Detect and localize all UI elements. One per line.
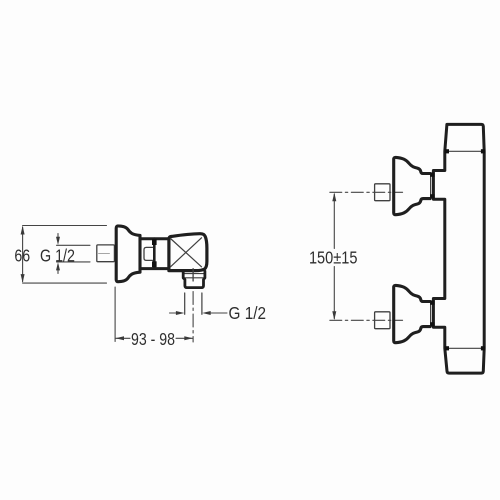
extension line 93-98 (escutcheon face) <box>114 287 116 342</box>
outlet centerline dash-dot <box>192 292 194 343</box>
bottom ring junction square upper <box>430 300 435 304</box>
junction square bottom <box>152 261 157 267</box>
dimension line 66 vertical <box>22 227 24 282</box>
extension line bottom (66 dim) <box>23 282 107 284</box>
top handle bell <box>394 157 430 214</box>
valve body (side view) <box>169 234 207 271</box>
cap junction square top-left <box>445 149 449 153</box>
X diagonal 1 <box>171 239 202 267</box>
inlet centerline dash <box>99 252 110 254</box>
outlet center tick <box>192 269 194 281</box>
X diagonal 2 <box>171 238 202 267</box>
G1/2 arrow down (above) <box>57 234 59 240</box>
bottom handle bell <box>394 285 430 342</box>
G1/2 extension line lower <box>57 261 91 263</box>
outlet nut <box>183 271 205 287</box>
dim line 150 lower segment + arrow <box>333 267 335 319</box>
top ring junction square upper <box>430 172 435 176</box>
svg-text:66: 66 <box>14 246 30 266</box>
neck bottom line <box>140 267 168 270</box>
dim line 93-98 right segment + arrow <box>176 337 193 339</box>
svg-text:G 1/2: G 1/2 <box>229 303 267 323</box>
outlet thin face line <box>183 277 204 279</box>
G1/2 arrow up (below) <box>57 268 59 274</box>
junction square top <box>152 239 157 245</box>
bottom handle centerline <box>330 319 403 321</box>
body outline <box>433 124 484 373</box>
arrow down 66 <box>21 274 25 283</box>
cap line top <box>446 150 484 152</box>
extension line top (66 dim) <box>23 225 107 227</box>
top handle centerline <box>330 191 403 193</box>
outlet upper face line <box>184 273 205 275</box>
bottom ring line <box>430 302 432 326</box>
cap junction square bottom-right <box>481 346 485 350</box>
dim line 93-98 left segment + arrow <box>116 337 130 339</box>
bottom handle stem <box>375 312 390 329</box>
neck top line <box>140 237 168 240</box>
junction line <box>153 239 156 269</box>
G1/2 extension line upper <box>57 244 91 246</box>
top handle stem <box>375 184 390 201</box>
svg-text:93 - 98: 93 - 98 <box>131 329 175 349</box>
top ring junction square lower <box>430 194 435 198</box>
dashed thread line left <box>184 293 186 314</box>
dashed thread line right <box>201 293 203 314</box>
inlet stem rect <box>97 245 115 262</box>
svg-text:150±15: 150±15 <box>309 247 358 267</box>
cap junction square top-right <box>481 149 485 153</box>
bottom ring junction square lower <box>430 322 435 326</box>
neck inner socket <box>144 247 153 260</box>
dim line 150 upper segment + arrow <box>333 194 335 249</box>
G1/2 right dim left line + arrow <box>170 312 178 314</box>
top ring line <box>430 174 432 198</box>
escutcheon bell (side view) <box>116 226 140 282</box>
svg-text:G 1/2: G 1/2 <box>40 246 75 266</box>
cap junction square bottom-left <box>445 346 449 350</box>
arrow up 66 <box>21 226 25 235</box>
cap line bottom <box>446 347 484 349</box>
G1/2 right dim right line + arrow <box>210 312 228 314</box>
